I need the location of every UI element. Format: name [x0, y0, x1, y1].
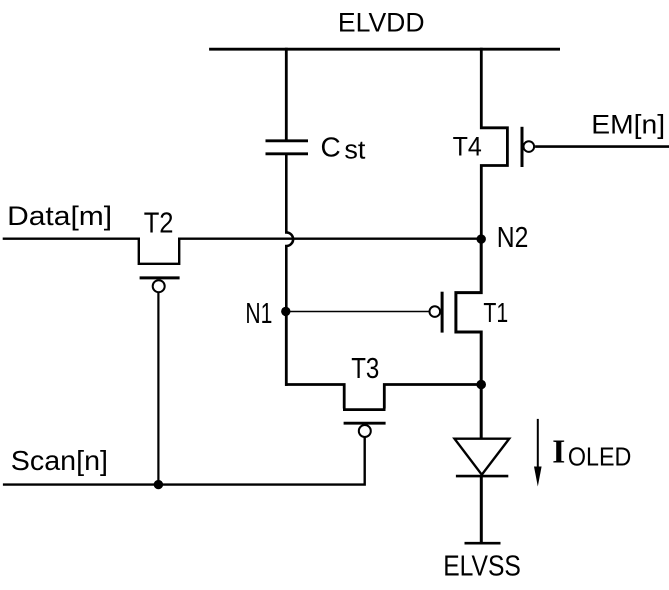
transistor T1 gate bar	[441, 292, 444, 333]
node OLED anode junction dot	[476, 380, 486, 390]
svg-text:N2: N2	[497, 222, 529, 254]
capacitor C1 bottom plate	[266, 152, 309, 155]
svg-text:T4: T4	[453, 131, 482, 161]
node N2 junction dot	[477, 234, 486, 243]
svg-text:T3: T3	[351, 353, 379, 385]
transistor T1 gate bubble	[430, 306, 441, 317]
diode OLED cathode bar	[456, 475, 508, 478]
wire Cst top leg	[285, 48, 288, 142]
wire OLED anode	[480, 385, 483, 439]
wire N1 to T1 gate	[286, 311, 429, 313]
svg-text:Data[m]: Data[m]	[7, 201, 112, 231]
svg-text:ELVDD: ELVDD	[338, 7, 425, 37]
transistor T2 gate bar	[140, 276, 180, 279]
wire Scan line up to T3 gate bubble	[3, 437, 365, 485]
transistor T4 gate bubble	[524, 141, 535, 152]
svg-text:st: st	[344, 137, 365, 165]
transistor T3 channel path from N1 leg to OLED junction	[285, 385, 481, 410]
wire T2 gate to Scan line	[157, 292, 159, 484]
transistor T1 source-drain path from N2 to OLED junction	[456, 239, 481, 385]
transistor T3 gate bar	[344, 422, 386, 425]
wire Cst bottom leg with crossover hop to N1	[286, 153, 293, 312]
node N1 junction dot	[281, 307, 290, 316]
svg-text:T2: T2	[144, 208, 174, 240]
wire N1 down to T3	[285, 311, 288, 386]
svg-text:OLED: OLED	[568, 442, 632, 472]
svg-text:I: I	[552, 433, 565, 470]
capacitor C1 top plate	[266, 139, 309, 142]
current label I OLED	[552, 433, 631, 471]
wire Data line and transistor T2 channel	[3, 239, 482, 264]
wire ELVDD rail	[209, 48, 560, 51]
transistor T4 gate bar	[521, 127, 524, 167]
current arrow I OLED	[534, 419, 542, 487]
terminal ELVSS bar	[465, 542, 501, 545]
transistor T3 gate bubble	[359, 425, 371, 437]
svg-text:T1: T1	[483, 297, 508, 328]
svg-text:Scan[n]: Scan[n]	[11, 445, 108, 476]
svg-text:N1: N1	[245, 298, 272, 330]
svg-text:C: C	[321, 131, 341, 162]
node Scan junction dot	[154, 480, 163, 489]
wire EM line	[535, 145, 669, 148]
value label Cst	[321, 131, 366, 164]
wire OLED cathode to ELVSS	[480, 477, 483, 542]
svg-text:EM[n]: EM[n]	[591, 109, 665, 139]
transistor T2 gate bubble	[153, 280, 165, 292]
transistor T4 source-drain path from ELVDD rail to N2	[481, 48, 507, 239]
diode OLED triangle	[455, 439, 510, 475]
svg-text:ELVSS: ELVSS	[443, 551, 521, 583]
